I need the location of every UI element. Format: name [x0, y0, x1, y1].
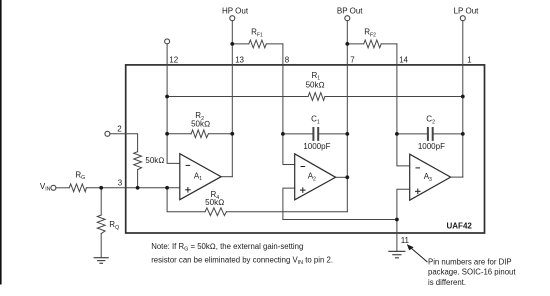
junction R2 left — [165, 132, 169, 136]
A2 minus sign — [301, 166, 306, 168]
A3 plus sign — [415, 190, 421, 192]
wire pin12 vertical into A1 inverting input — [167, 44, 180, 164]
svg-text:Note: If RG = 50kΩ, the extern: Note: If RG = 50kΩ, the external gain-se… — [151, 242, 303, 253]
resistor RG — [69, 184, 86, 192]
junction C2 left — [395, 132, 399, 136]
terminal LP Out — [460, 16, 465, 21]
wire A3 plus input down to pin 11 — [397, 189, 410, 251]
junction R2 right — [230, 132, 234, 136]
wire R1 row — [167, 96, 308, 98]
wire RF2 leads — [347, 43, 363, 45]
A1 plus sign — [185, 189, 191, 191]
wire RQ bottom lead to ground — [100, 234, 102, 258]
wire RF2 down to pin 14 and A3 inverting input — [397, 44, 410, 166]
svg-text:1: 1 — [467, 55, 472, 64]
svg-text:3: 3 — [118, 179, 123, 188]
wire A1 output to pin 13 node — [221, 176, 232, 178]
terminal pin 12 — [165, 39, 170, 44]
junction A2 output — [345, 175, 349, 179]
annotation text pin numbers note — [428, 258, 516, 287]
op-amp A1 triangle — [180, 154, 221, 200]
junction C1 left — [281, 132, 285, 136]
wire pin 2 entry — [110, 134, 138, 152]
junction node 3 50k — [136, 186, 140, 190]
resistor RQ external — [97, 215, 105, 234]
junction RF2 tap — [345, 42, 349, 46]
UAF42 package outline box — [126, 65, 485, 233]
terminal VIN — [51, 185, 56, 190]
resistor R2 50k — [191, 130, 208, 138]
svg-text:11: 11 — [401, 236, 410, 245]
A2 plus sign — [300, 189, 306, 191]
wire HP out / pin 13 vertical — [231, 21, 233, 177]
svg-text:50kΩ: 50kΩ — [145, 156, 164, 165]
svg-text:1000pF: 1000pF — [303, 142, 330, 151]
svg-text:package. SOIC-16 pinout: package. SOIC-16 pinout — [428, 268, 516, 277]
wire VIN to RG — [56, 187, 69, 189]
wire RF1 leads — [232, 43, 249, 45]
svg-text:14: 14 — [399, 55, 408, 64]
junction R1 left — [165, 95, 169, 99]
svg-text:50kΩ: 50kΩ — [306, 80, 325, 89]
note text — [151, 242, 333, 266]
op-amp A3 triangle — [410, 154, 451, 200]
wire C1 leads — [283, 133, 313, 135]
junction C1 right — [345, 132, 349, 136]
svg-text:HP Out: HP Out — [222, 7, 249, 16]
svg-text:BP Out: BP Out — [337, 7, 363, 16]
annotation arrow to pin 11 — [407, 244, 428, 262]
wire A2 output — [336, 176, 348, 178]
capacitor C2 plates — [427, 128, 429, 140]
terminal BP Out — [345, 16, 350, 21]
junction node 3 R4 — [165, 186, 169, 190]
A1 minus sign — [186, 164, 191, 166]
wire RG to A1 noninverting input node 3 — [86, 187, 179, 189]
wire C2 leads — [397, 133, 427, 135]
wire node3 down to R4 — [167, 188, 205, 212]
ground RQ — [94, 258, 108, 264]
junction R1 right — [461, 95, 465, 99]
svg-text:13: 13 — [235, 55, 244, 64]
wire A2 inputs stub plus — [283, 188, 295, 219]
svg-text:LP Out: LP Out — [454, 7, 480, 16]
left page border line — [0, 0, 2, 285]
wire R4 to BP node — [226, 211, 347, 213]
wire BP out / pin 7 vertical — [346, 21, 348, 212]
resistor R1 50k — [308, 93, 325, 101]
svg-text:UAF42: UAF42 — [447, 222, 473, 231]
svg-text:Pin numbers are for DIP: Pin numbers are for DIP — [428, 258, 512, 267]
wire RF1 down to pin 8 and A2 inverting input — [283, 44, 295, 165]
junction node 3 RQ — [99, 186, 103, 190]
op-amp input polarity signs — [185, 165, 421, 194]
A3 minus sign — [416, 167, 421, 169]
terminal HP Out — [230, 16, 235, 21]
svg-text:8: 8 — [285, 55, 290, 64]
resistor R4 50k — [205, 208, 226, 216]
wire RQ top lead — [100, 188, 102, 215]
svg-text:12: 12 — [169, 55, 178, 64]
capacitor C1 plates — [312, 128, 314, 140]
junction ground bus pin 11 — [395, 218, 399, 222]
ground pin 11 — [389, 251, 405, 257]
resistor 50k vertical (Q resistor internal) — [134, 152, 142, 170]
junction C2 right — [461, 132, 465, 136]
svg-text:50kΩ: 50kΩ — [191, 120, 210, 129]
wire 50k resistor to node 3 — [137, 170, 139, 188]
wire R2 row — [167, 133, 191, 135]
resistor RF2 — [364, 40, 382, 48]
wire ground bus A2 to A3 — [283, 219, 397, 221]
svg-text:1000pF: 1000pF — [418, 142, 445, 151]
svg-text:50kΩ: 50kΩ — [205, 198, 224, 207]
wire A3 output — [451, 176, 463, 178]
svg-text:2: 2 — [117, 124, 122, 133]
resistor RF1 — [249, 40, 266, 48]
svg-text:is different.: is different. — [428, 278, 466, 287]
terminal pin 2 — [105, 131, 110, 136]
junction RF1 tap — [230, 42, 234, 46]
wire LP out / pin 1 vertical — [462, 21, 464, 178]
op-amp A2 triangle — [295, 154, 336, 200]
svg-text:7: 7 — [350, 55, 355, 64]
